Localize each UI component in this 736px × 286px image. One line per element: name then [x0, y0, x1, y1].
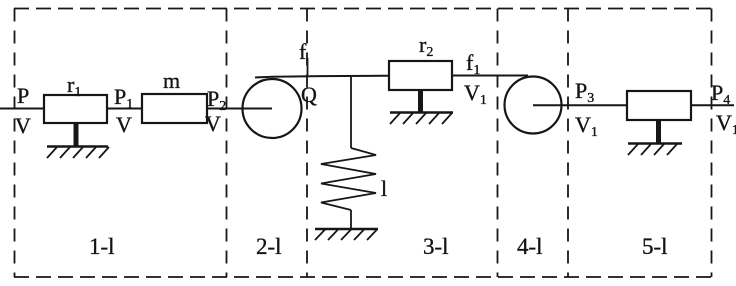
svg-text:4-l: 4-l	[517, 234, 543, 259]
damper r2 body	[389, 61, 452, 90]
svg-text:V1: V1	[575, 112, 598, 140]
svg-text:3-l: 3-l	[423, 234, 449, 259]
dashed border bottom edge	[14, 276, 712, 278]
svg-text:V: V	[205, 111, 221, 136]
wire: spring lower lead	[350, 210, 352, 229]
support strut of damper r1	[74, 123, 79, 147]
dashed divider between 4-l and 5-l	[567, 9, 569, 278]
svg-text:1-l: 1-l	[89, 234, 115, 259]
wire: input shaft segment P to damper r1	[0, 108, 44, 110]
damper r1 body	[44, 95, 107, 123]
svg-text:V1: V1	[464, 80, 487, 108]
dashed divider between 2-l and 3-l	[306, 9, 308, 278]
dashed border right edge (box 5-l)	[711, 9, 713, 278]
svg-text:2-l: 2-l	[256, 234, 282, 259]
svg-text:Q: Q	[301, 82, 317, 107]
svg-text:P: P	[17, 83, 29, 108]
support strut of damper r2	[418, 90, 423, 113]
svg-text:m: m	[163, 68, 180, 93]
mass m body	[142, 94, 207, 123]
wire: belt line from r2 to pulley 2 top	[452, 75, 528, 77]
wire: pulley 2 center line to box 5	[533, 104, 627, 106]
pulley 1	[243, 79, 302, 138]
pulley 1 radius line to center	[243, 108, 272, 110]
svg-text:P2: P2	[207, 86, 226, 114]
svg-text:r2: r2	[419, 32, 433, 60]
svg-text:5-l: 5-l	[642, 234, 668, 259]
wire: belt line from pulley 1 top to damper r2	[255, 76, 389, 78]
wire: segment P2 from mass m to pulley 1	[207, 108, 243, 110]
spring l	[321, 148, 376, 210]
svg-text:r1: r1	[67, 72, 81, 100]
damper body in section 5-l	[627, 91, 691, 120]
dashed border left edge (box 1-l)	[14, 9, 16, 278]
pulley 2	[505, 77, 562, 134]
ground under spring	[315, 229, 378, 240]
svg-text:P1: P1	[114, 84, 133, 112]
dashed divider between 1-l and 2-l	[226, 9, 228, 278]
svg-text:P4: P4	[711, 80, 730, 108]
dashed border top edge	[14, 8, 712, 10]
svg-text:P3: P3	[575, 78, 594, 106]
wire: force f leader tick	[307, 58, 309, 75]
svg-text:f: f	[299, 39, 307, 64]
wire: segment P1 between r1 and mass m	[107, 108, 142, 110]
ground under 5-l damper	[628, 144, 682, 156]
wire: spring hanger drop line	[350, 76, 352, 149]
svg-text:V1: V1	[716, 110, 736, 138]
svg-text:V: V	[15, 113, 31, 138]
svg-text:V: V	[116, 112, 132, 137]
dashed divider between 3-l and 4-l	[497, 9, 499, 278]
svg-text:l: l	[381, 176, 387, 201]
ground under r2	[390, 113, 453, 125]
wire: output shaft segment P4	[691, 104, 734, 106]
support strut of damper in 5-l	[656, 120, 661, 144]
ground under r1	[47, 147, 109, 159]
svg-text:f1: f1	[466, 50, 480, 78]
